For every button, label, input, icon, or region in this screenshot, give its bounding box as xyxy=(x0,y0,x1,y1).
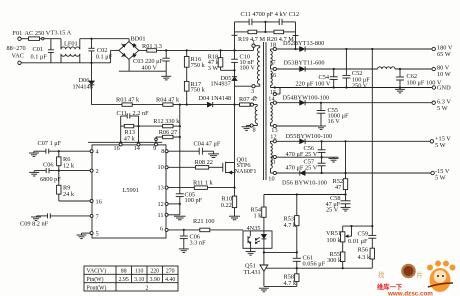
svg-text:R12 330 k: R12 330 k xyxy=(153,118,180,125)
potentiometer VR51 100k xyxy=(326,226,352,244)
ground C04 xyxy=(208,151,219,157)
diode D06 1N4148 xyxy=(73,63,95,105)
transformer pin 3 xyxy=(235,84,260,95)
svg-text:0.1 μF: 0.1 μF xyxy=(96,53,113,60)
transformer pin 11 xyxy=(270,155,277,165)
fuse F01 label xyxy=(13,30,72,37)
svg-text:7: 7 xyxy=(96,213,99,220)
svg-text:470 μF 25 V: 470 μF 25 V xyxy=(286,164,318,171)
svg-text:R08 22: R08 22 xyxy=(195,159,213,166)
wire pin9 riser xyxy=(155,137,158,142)
resistor R11 1k xyxy=(168,180,235,190)
wire AC bottom rail xyxy=(21,62,61,64)
ground 4N35 emitter xyxy=(246,248,256,255)
transformer pin 17 xyxy=(269,59,276,70)
capacitor C52 100uF 250V xyxy=(342,49,370,90)
svg-text:1 k: 1 k xyxy=(254,213,263,220)
diode D05 1N4937 xyxy=(211,75,238,163)
svg-text:AC 250 V: AC 250 V xyxy=(25,30,51,37)
svg-text:3 W: 3 W xyxy=(208,65,219,72)
wire HV rail xyxy=(157,47,254,51)
svg-text:220: 220 xyxy=(150,269,159,275)
svg-text:0.22: 0.22 xyxy=(221,202,232,209)
svg-text:2: 2 xyxy=(96,168,99,175)
capacitor C02 xyxy=(88,39,112,63)
ground pin 5 xyxy=(77,233,91,239)
svg-text:VR51: VR51 xyxy=(326,230,341,237)
svg-text:88: 88 xyxy=(121,269,127,275)
svg-text:3.3 nF: 3.3 nF xyxy=(190,240,207,247)
shunt regulator Q51 TL431 xyxy=(244,263,270,287)
svg-text:1: 1 xyxy=(252,39,255,46)
diode D52 BYT13-800 xyxy=(276,40,324,51)
transformer winding 17-16 xyxy=(271,71,273,85)
svg-text:6: 6 xyxy=(160,225,163,232)
svg-text:24 k: 24 k xyxy=(63,191,75,198)
capacitor C56 470uF 25V xyxy=(286,141,326,158)
capacitor C57 470uF 25V xyxy=(286,157,326,174)
svg-text:7: 7 xyxy=(253,95,256,102)
svg-text:750 k: 750 k xyxy=(191,62,206,69)
svg-text:10: 10 xyxy=(158,164,164,171)
svg-text:270: 270 xyxy=(166,269,175,275)
svg-text:18: 18 xyxy=(270,42,276,49)
resistor R12 330k xyxy=(137,118,181,128)
diode D53 BYT11-600 xyxy=(276,60,324,72)
svg-text:25 V: 25 V xyxy=(326,207,339,214)
svg-text:R11 1 k: R11 1 k xyxy=(193,180,214,187)
capacitor C03 220uF 400V xyxy=(133,50,170,71)
wire xyxy=(132,104,163,106)
svg-text:4.3 k: 4.3 k xyxy=(358,254,371,261)
capacitor C12 xyxy=(279,19,282,25)
wire 180V line xyxy=(305,48,432,50)
transformer pin 16 / GND rail start xyxy=(270,72,432,89)
svg-text:4.40: 4.40 xyxy=(165,277,175,283)
svg-text:16: 16 xyxy=(114,145,120,152)
transformer pin 8 xyxy=(250,123,257,133)
svg-text:D04 1N4148: D04 1N4148 xyxy=(199,95,232,102)
svg-text:3.10: 3.10 xyxy=(134,277,144,283)
wire bridge negative rail xyxy=(119,59,166,76)
svg-text:400 V: 400 V xyxy=(142,65,158,72)
fuse F01 xyxy=(21,37,61,41)
transformer winding 12-11-10 xyxy=(271,143,273,168)
wire pin 11 / ground xyxy=(168,215,186,220)
transformer primary winding 1-3 xyxy=(258,48,260,85)
transistor Q01 STP6NA60FI xyxy=(223,156,257,174)
capacitor C59 0.01uF xyxy=(348,231,376,249)
svg-text:0.056 μF: 0.056 μF xyxy=(303,261,326,268)
resistor R13 47k xyxy=(121,124,139,142)
svg-text:LF01: LF01 xyxy=(64,41,78,48)
wire VR51 top link xyxy=(343,225,373,232)
capacitor C01 xyxy=(31,39,54,63)
watermark dzsc logo xyxy=(377,261,456,296)
svg-text:R06 27: R06 27 xyxy=(159,129,177,136)
IC pin circles top xyxy=(119,143,157,146)
ground TL431 xyxy=(259,286,297,291)
svg-text:100 k: 100 k xyxy=(327,237,342,244)
svg-text:D54BYW100-100: D54BYW100-100 xyxy=(283,94,330,101)
ground C58 xyxy=(341,207,351,211)
resistor R17 750k xyxy=(184,67,205,104)
ground C07 xyxy=(29,151,39,156)
IC pin circles right xyxy=(165,150,168,232)
diode D56 BYW10-100 xyxy=(276,170,431,186)
svg-text:R21 100: R21 100 xyxy=(193,218,215,225)
terminal 180V xyxy=(432,44,453,57)
svg-text:14: 14 xyxy=(268,96,275,103)
svg-text:6800 pF: 6800 pF xyxy=(40,176,61,183)
svg-text:Pin(W): Pin(W) xyxy=(87,276,104,283)
optocoupler 4N35 xyxy=(243,225,272,248)
svg-text:BD01: BD01 xyxy=(131,35,146,42)
common-mode choke LF01 xyxy=(61,39,80,63)
capacitor C04 47uF xyxy=(168,140,221,154)
diode D04 1N4148 xyxy=(199,95,235,107)
resistor R06 27 xyxy=(156,129,181,139)
capacitor C61 0.056uF xyxy=(293,255,326,269)
transformer winding 18-17 xyxy=(271,51,273,65)
terminal GND xyxy=(432,85,451,92)
wire snubber right leg xyxy=(293,22,299,50)
svg-text:L5991: L5991 xyxy=(123,187,139,194)
resistor R01 3.3 xyxy=(139,43,162,52)
wire xyxy=(173,104,207,106)
ground C55 xyxy=(316,126,326,130)
svg-text:110: 110 xyxy=(135,269,144,275)
svg-text:8: 8 xyxy=(253,127,256,134)
input terminal bottom xyxy=(18,61,21,64)
wire 80V out xyxy=(395,68,432,70)
svg-text:D56 BYW10-100: D56 BYW10-100 xyxy=(282,179,327,186)
svg-text:11: 11 xyxy=(270,159,276,166)
resistor R53 4.7k xyxy=(284,195,300,259)
svg-text:找: 找 xyxy=(378,270,385,279)
svg-text:4.7 k: 4.7 k xyxy=(284,222,297,229)
wire IC top bus xyxy=(88,141,162,143)
svg-text:C07 1 μF: C07 1 μF xyxy=(38,140,62,147)
svg-text:C06: C06 xyxy=(43,162,54,169)
wire snubber top row xyxy=(235,21,296,23)
wire snubber left leg xyxy=(232,22,238,51)
capacitor C06 3.3nF xyxy=(180,230,206,249)
svg-text:14: 14 xyxy=(134,145,141,152)
svg-text:C04 47 μF: C04 47 μF xyxy=(194,140,221,147)
svg-text:T3.15 A: T3.15 A xyxy=(51,30,72,37)
resistor R9 24k xyxy=(57,171,75,201)
svg-text:2.2 nF: 2.2 nF xyxy=(133,110,150,117)
input terminal top xyxy=(18,37,21,40)
svg-text:R04 47 k: R04 47 k xyxy=(156,96,180,103)
transformer T core xyxy=(264,42,267,180)
diode D54 BYW100-100 xyxy=(276,94,329,105)
resistor R21 100 xyxy=(168,218,243,232)
svg-text:11: 11 xyxy=(158,212,164,219)
svg-text:100 V: 100 V xyxy=(240,65,256,72)
resistor R52 47 xyxy=(333,141,348,201)
IC pin labels top xyxy=(114,145,157,152)
svg-text:0.01 μF: 0.01 μF xyxy=(348,238,368,245)
resistor R07 47 xyxy=(235,96,258,106)
svg-text:5: 5 xyxy=(96,230,99,237)
svg-text:TL431: TL431 xyxy=(244,269,261,276)
svg-text:0.1 μF: 0.1 μF xyxy=(31,53,48,60)
diode D55 BYW100-100 xyxy=(276,133,332,144)
IC pin labels right xyxy=(158,148,165,232)
svg-text:10: 10 xyxy=(268,176,274,183)
capacitor C06 6800pF xyxy=(34,162,90,184)
resistor R03 47k xyxy=(116,96,140,106)
svg-text:1N4937: 1N4937 xyxy=(211,80,231,87)
svg-text:VAC(V): VAC(V) xyxy=(87,268,107,275)
svg-text:13: 13 xyxy=(158,185,164,192)
wire 180V sense dropper xyxy=(371,49,373,235)
svg-text:5 W: 5 W xyxy=(435,174,446,181)
bridge rectifier BD01 xyxy=(119,35,146,59)
capacitor C54 220uF 100V xyxy=(296,69,338,89)
svg-text:www.dzsc.com: www.dzsc.com xyxy=(387,291,433,296)
wire pin14 riser xyxy=(138,116,140,142)
resistor R55 300k xyxy=(327,242,345,268)
terminal -15V xyxy=(431,168,450,181)
transformer pin 14 xyxy=(268,96,276,105)
wire 0V line xyxy=(276,156,338,158)
svg-text:NA60F1: NA60F1 xyxy=(235,168,257,175)
label 88~270 VAC xyxy=(7,45,26,59)
svg-text:R03 47 k: R03 47 k xyxy=(116,96,140,103)
svg-text:GND: GND xyxy=(437,85,451,92)
svg-text:C11: C11 xyxy=(117,110,127,117)
wire sense dropper xyxy=(179,105,181,194)
capacitor C11 2.2nF xyxy=(117,110,150,118)
wire opto supply line xyxy=(264,193,346,207)
ground primary (C03) xyxy=(161,76,171,80)
svg-text:4.7 k: 4.7 k xyxy=(284,280,297,287)
L5991 IC U1 xyxy=(92,145,166,238)
table power measurements xyxy=(84,266,178,291)
wire 80V line xyxy=(305,68,377,70)
transformer pin 10 xyxy=(268,169,276,183)
svg-text:3: 3 xyxy=(251,88,254,95)
transformer winding 14-13 xyxy=(271,105,273,123)
svg-text:65 W: 65 W xyxy=(437,51,451,58)
wire TL431 ref / divider line xyxy=(270,267,373,269)
wire snubber mid link xyxy=(264,22,266,33)
resistor R56 4.3k xyxy=(358,247,375,269)
svg-text:R56: R56 xyxy=(358,247,369,254)
IC pin labels left xyxy=(96,149,102,238)
svg-text:3.90: 3.90 xyxy=(150,277,160,283)
transformer pin 1 xyxy=(252,39,260,47)
svg-text:D53BYT11-600: D53BYT11-600 xyxy=(284,60,325,67)
svg-text:Pout(W): Pout(W) xyxy=(87,284,107,291)
resistor R18 47k 3W xyxy=(208,50,235,71)
node drain/D04 xyxy=(233,104,235,106)
svg-text:5 W: 5 W xyxy=(437,105,448,112)
svg-text:750 k: 750 k xyxy=(191,87,206,94)
capacitor C07 1uF xyxy=(34,140,90,154)
inductor L62 xyxy=(378,67,396,69)
svg-text:47: 47 xyxy=(335,184,341,191)
resistor R04 47k xyxy=(156,96,180,106)
svg-text:16: 16 xyxy=(270,72,276,79)
wire AC top rail to bridge xyxy=(80,38,129,42)
svg-text:C11 4700 pF 4 kV C12: C11 4700 pF 4 kV C12 xyxy=(241,11,300,18)
svg-text:12 k: 12 k xyxy=(63,162,75,169)
capacitor C58 47uF 25V xyxy=(326,195,351,213)
wire +15V line xyxy=(305,140,430,142)
terminal 80V xyxy=(432,65,451,78)
ground R10 xyxy=(229,216,240,220)
resistor R10 0.22 xyxy=(221,173,237,217)
svg-text:C01: C01 xyxy=(33,46,44,53)
svg-text:VAC: VAC xyxy=(12,52,24,59)
svg-text:D52BYT13-800: D52BYT13-800 xyxy=(283,40,324,47)
svg-text:12: 12 xyxy=(158,201,164,208)
svg-text:250 V: 250 V xyxy=(352,83,368,90)
svg-text:9: 9 xyxy=(153,145,156,152)
svg-text:C09 8.2 nF: C09 8.2 nF xyxy=(20,221,49,228)
transformer pin 15 xyxy=(270,88,280,96)
transformer aux winding 7-8 xyxy=(255,106,257,123)
svg-text:16: 16 xyxy=(96,199,102,206)
resistor R16 750k xyxy=(184,50,205,69)
svg-text:F01: F01 xyxy=(13,30,23,37)
svg-text:2.95: 2.95 xyxy=(119,277,129,283)
terminal +15V xyxy=(430,136,451,149)
ground C06 xyxy=(179,249,189,253)
resistor R58 4.7k xyxy=(284,268,300,287)
wire sync line xyxy=(92,104,123,106)
transformer pin 13 xyxy=(271,123,317,134)
wire pin 16 row xyxy=(59,200,90,202)
svg-text:8: 8 xyxy=(161,148,164,155)
svg-text:C59: C59 xyxy=(358,231,369,238)
svg-text:D55BYW100-100: D55BYW100-100 xyxy=(286,133,333,140)
resistor R54 1k xyxy=(251,207,267,231)
svg-text:16 V: 16 V xyxy=(328,118,341,125)
capacitor C55 1000uF 16V xyxy=(317,103,349,126)
ground aux pin 8 xyxy=(242,126,252,131)
svg-text:220 μF 100 V: 220 μF 100 V xyxy=(296,81,331,88)
wire LED cathode to TL431 xyxy=(263,248,297,265)
svg-text:片: 片 xyxy=(417,270,423,279)
svg-text:1N4148: 1N4148 xyxy=(73,83,93,90)
wire 6.3V line xyxy=(305,102,432,104)
resistor R20 4.7M xyxy=(257,30,296,34)
resistor R19 4.7M xyxy=(235,30,257,34)
svg-text:88~270: 88~270 xyxy=(7,45,26,52)
svg-text:17: 17 xyxy=(269,59,275,66)
ground C09 xyxy=(31,216,41,221)
svg-text:47 k: 47 k xyxy=(124,135,136,142)
svg-text:4N35: 4N35 xyxy=(247,225,261,232)
svg-text:300 k: 300 k xyxy=(327,257,342,264)
capacitor C62 100uF 100V xyxy=(396,69,442,89)
capacitor C11 xyxy=(249,19,252,25)
svg-text:100 pF: 100 pF xyxy=(185,197,203,204)
svg-text:2: 2 xyxy=(146,285,149,291)
wire pin 12 xyxy=(168,203,180,205)
ground 0V xyxy=(329,157,339,162)
svg-text:5 W: 5 W xyxy=(435,142,446,149)
resistor R08 22 xyxy=(168,159,223,169)
ground C06 xyxy=(29,171,39,176)
IC pin circles left xyxy=(90,150,93,235)
wire AC bottom rail to bridge xyxy=(61,50,119,64)
svg-text:R01 3.3: R01 3.3 xyxy=(142,43,162,50)
wire pin16 riser xyxy=(120,116,122,142)
capacitor C05 100pF xyxy=(176,191,203,215)
capacitor C10 10nF 100V xyxy=(231,50,255,77)
transformer pin 18 xyxy=(270,42,277,51)
capacitor C09 8.2nF xyxy=(20,213,90,227)
svg-text:10 W: 10 W xyxy=(437,71,451,78)
svg-text:12: 12 xyxy=(270,134,276,141)
ground GND rail xyxy=(395,88,405,93)
transformer pin 12 xyxy=(270,134,276,144)
resistor R6 12k xyxy=(57,151,75,170)
transformer pin 7 xyxy=(250,95,257,106)
terminal 6.3V xyxy=(432,99,451,112)
